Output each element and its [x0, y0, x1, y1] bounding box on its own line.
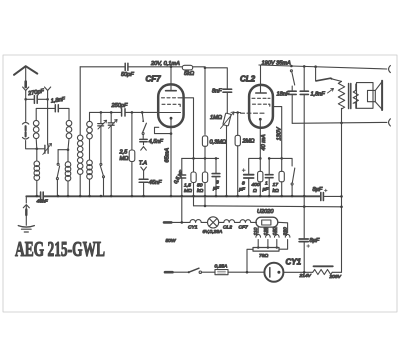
- CF7 cathode: [170, 117, 173, 120]
- connector bottom right: [389, 119, 391, 126]
- node trimmer1: [100, 111, 103, 114]
- wire 1.8nF right lead: [59, 108, 69, 120]
- node speaker switch: [314, 65, 317, 68]
- wire: [251, 221, 257, 223]
- svg-text:kΩ: kΩ: [197, 188, 203, 194]
- coil L1 upper: [33, 120, 39, 126]
- node transformer bottom: [340, 122, 343, 125]
- CF7 grid3 dashes: [162, 104, 180, 106]
- wire: [228, 271, 265, 273]
- svg-text:270pF: 270pF: [27, 88, 45, 97]
- svg-text:8µF: 8µF: [310, 238, 320, 244]
- svg-text:Ω: Ω: [253, 188, 257, 194]
- capacitor 1.8nF: [55, 105, 58, 112]
- node 50k top: [204, 157, 207, 160]
- wire junction1 to tuning cap: [37, 148, 45, 150]
- wire: [219, 221, 224, 223]
- svg-text:CL2: CL2: [240, 75, 256, 84]
- node right of 270pF: [46, 98, 49, 101]
- transformer T1 secondary: [353, 90, 358, 103]
- mains plug: [165, 271, 173, 274]
- lamp 6V 0.23A: [208, 217, 219, 228]
- antenna plug pin: [24, 82, 27, 88]
- capacitor 18nF: [291, 86, 293, 91]
- switch S6 output tap: [315, 67, 317, 81]
- capacitor 250pF: [122, 109, 125, 116]
- TA jack lower: [141, 167, 147, 179]
- wire top HT rail left: [80, 67, 205, 135]
- svg-text:20V, 0,1mA: 20V, 0,1mA: [150, 61, 180, 67]
- svg-text:45nF: 45nF: [37, 199, 49, 205]
- svg-text:130V: 130V: [276, 126, 282, 140]
- wire HT feed vertical: [341, 108, 343, 272]
- wire pot wiper to CL2 grid: [235, 112, 241, 114]
- svg-text:18nF: 18nF: [277, 91, 290, 97]
- CL2 grid3 dashes: [253, 104, 270, 106]
- wire CF7 screen exit: [181, 98, 193, 159]
- wire CY1 to dropper: [283, 271, 312, 273]
- resistor 2.5MOhm: [131, 112, 133, 150]
- node HT right bus: [340, 195, 343, 198]
- wire jack2 down to tuning cap: [47, 91, 49, 146]
- node 8nF feed: [204, 67, 207, 70]
- capacitor 50pF: [125, 63, 128, 70]
- CL2 control grid dashes: [241, 112, 265, 114]
- node 1.8nF2 branch: [303, 65, 306, 68]
- wire: [173, 271, 189, 273]
- wire CL2 screen exit: [273, 107, 282, 159]
- ballast tube U2020: [256, 217, 278, 227]
- capacitor 1.8nF2: [303, 66, 305, 90]
- wire CF7 cathode down: [170, 118, 172, 196]
- wire grid rail: [90, 111, 159, 113]
- svg-text:CL2: CL2: [223, 224, 232, 230]
- transformer T1 core: [349, 84, 351, 109]
- wire HT node to 8nF: [205, 68, 227, 89]
- potentiometer 1MOhm: [226, 92, 228, 113]
- ground plug pin: [25, 210, 27, 216]
- tube CL2: [249, 85, 273, 128]
- coil L4 lower: [89, 139, 91, 160]
- second jack socket: [45, 87, 51, 91]
- fuse 0.25A: [215, 270, 228, 275]
- wire 18nF to bottom rail: [291, 94, 293, 123]
- ground symbol: [18, 226, 34, 228]
- wire antenna lead: [25, 67, 27, 81]
- wire CL2 anode riser: [260, 65, 262, 93]
- CF7 control grid line: [159, 112, 181, 114]
- svg-text:1,5: 1,5: [184, 183, 191, 189]
- capacitor 8uF2 electrolytic: [299, 239, 308, 242]
- ballast taps: [257, 227, 259, 233]
- CF7 grid2 dashes: [162, 97, 182, 99]
- wire: [235, 221, 240, 223]
- svg-text:110: 110: [253, 227, 259, 235]
- capacitor 270pF: [34, 96, 37, 104]
- svg-text:50W: 50W: [166, 238, 176, 244]
- resistor 50kOhm: [204, 158, 206, 172]
- heater CY1 bumps: [190, 220, 201, 223]
- wire heater: [171, 221, 190, 223]
- capacitor 8uF electrolytic: [244, 175, 254, 178]
- wire cathode junction to 8uF: [249, 158, 261, 174]
- bus junction dots: [36, 195, 306, 198]
- svg-text:CY1: CY1: [188, 224, 198, 230]
- wire bottom rail (output return): [292, 121, 387, 124]
- antenna jack socket: [23, 87, 29, 91]
- resistor 400Ohm: [259, 158, 261, 171]
- svg-text:208V: 208V: [329, 274, 342, 280]
- trimmer C-t2: [110, 112, 112, 122]
- wire: [202, 271, 216, 273]
- resistor 2MOhm: [237, 113, 239, 136]
- svg-text:1MΩ: 1MΩ: [210, 115, 223, 121]
- heater line plug: [164, 221, 171, 224]
- tube CF7: [158, 84, 183, 127]
- wire 1.8nF left lead: [36, 108, 55, 120]
- CL2 grid2 dashes: [252, 97, 270, 99]
- node TA branch: [141, 111, 144, 114]
- capacitor 4.5nF: [140, 139, 147, 141]
- heater CF7 bumps: [240, 220, 251, 223]
- wire oscillator feed from top rail: [79, 67, 81, 135]
- switch S2: [100, 163, 102, 165]
- resistor 5kOhm: [182, 65, 192, 70]
- node 18nF branch: [290, 65, 293, 68]
- svg-text:µF: µF: [239, 187, 246, 193]
- rectifier tube CY1: [264, 263, 283, 282]
- svg-text:50pF: 50pF: [121, 72, 134, 78]
- switch S4 tone: [282, 158, 292, 166]
- wire jack to node: [25, 91, 27, 100]
- wire left column down: [26, 99, 37, 149]
- capacitor 1uF: [268, 158, 270, 174]
- wire CF7 suppressor strap to cathode: [155, 127, 172, 133]
- svg-text:T.A: T.A: [139, 161, 147, 167]
- svg-text:6V,0,23A: 6V,0,23A: [203, 229, 223, 235]
- ground bus: [26, 195, 320, 197]
- svg-text:8nF: 8nF: [212, 89, 222, 95]
- svg-text:U2020: U2020: [257, 209, 274, 215]
- svg-text:CY1: CY1: [286, 258, 302, 267]
- capacitor 8uF HT smoothing: [321, 193, 324, 201]
- svg-text:µF: µF: [213, 186, 220, 192]
- node tuner junction 1: [36, 148, 39, 151]
- switch S3 TA: [142, 112, 143, 120]
- wire screen node rail: [269, 157, 282, 159]
- svg-text:2MΩ: 2MΩ: [242, 139, 256, 145]
- svg-text:5kΩ: 5kΩ: [184, 71, 195, 77]
- resistor 1.5MOhm: [193, 158, 195, 172]
- ground jack: [23, 205, 29, 208]
- CL2 anode bar: [256, 92, 266, 94]
- svg-text:214V: 214V: [299, 273, 312, 279]
- svg-text:AEG 215-GWL: AEG 215-GWL: [15, 237, 105, 261]
- antenna: [14, 66, 37, 75]
- node col2 junction: [67, 148, 70, 151]
- node trimmer2: [110, 111, 113, 114]
- svg-text:MΩ: MΩ: [120, 156, 130, 162]
- switch S5: [290, 70, 292, 72]
- svg-text:1: 1: [265, 181, 268, 187]
- svg-text:CF7: CF7: [146, 75, 162, 84]
- svg-text:CF7: CF7: [239, 224, 249, 230]
- wire: [201, 221, 207, 223]
- svg-text:MΩ: MΩ: [184, 188, 192, 194]
- wire L1 to junction: [35, 139, 38, 149]
- svg-text:150: 150: [272, 227, 278, 235]
- heater CL2 bumps: [224, 220, 235, 223]
- wire C270 to jack2: [38, 98, 48, 100]
- coil L2 lower: [67, 150, 69, 162]
- svg-text:40 mA: 40 mA: [261, 134, 267, 150]
- wire node to C 270pF: [26, 98, 34, 100]
- wire HT rail right: [259, 65, 387, 69]
- coil L2 upper: [66, 120, 72, 126]
- node 1.5M top: [192, 157, 195, 160]
- svg-text:45nF: 45nF: [149, 180, 162, 186]
- transformer T1 primary: [332, 79, 342, 82]
- svg-text:400: 400: [252, 182, 260, 188]
- capacitor 3uF: [215, 158, 217, 173]
- svg-text:220: 220: [283, 227, 289, 236]
- wire CF7 anode riser: [170, 67, 172, 91]
- coil L4 upper: [87, 121, 93, 127]
- connector top right: [389, 66, 391, 73]
- resistor 0.3MOhm: [202, 136, 207, 147]
- svg-text:1,8nF: 1,8nF: [311, 91, 326, 97]
- resistor 17kOhm: [281, 158, 283, 171]
- speaker LS: [357, 83, 374, 109]
- trimmer C-t1: [100, 112, 102, 123]
- svg-text:8: 8: [242, 181, 245, 187]
- wire switch top to col2: [58, 149, 68, 151]
- svg-text:8µF: 8µF: [313, 187, 323, 193]
- capacitor 45nF series ground: [41, 192, 44, 200]
- svg-text:µF: µF: [263, 187, 270, 193]
- TA jack upper: [141, 142, 147, 151]
- wire CL2 cathode down: [259, 119, 261, 158]
- svg-text:0,3MΩ: 0,3MΩ: [210, 140, 227, 146]
- wire screen junction rail: [182, 157, 219, 159]
- wire selector bar feed: [247, 249, 253, 272]
- capacitor 45nF TA: [139, 179, 148, 182]
- wire dropper to HT vertical: [332, 271, 341, 273]
- coil L3 tall: [77, 135, 83, 141]
- node CL2 cathode junction: [259, 157, 262, 160]
- svg-text:1,8nF: 1,8nF: [50, 97, 66, 105]
- svg-text:250pF: 250pF: [111, 103, 128, 109]
- svg-text:3: 3: [216, 180, 219, 186]
- svg-text:79Ω: 79Ω: [259, 253, 268, 259]
- svg-text:0,25A: 0,25A: [215, 264, 228, 270]
- coil L1 lower: [36, 149, 38, 161]
- node R 2.5M top: [131, 111, 134, 114]
- svg-text:17: 17: [273, 182, 279, 188]
- CY1 filament bar: [269, 268, 271, 277]
- switch S1 band: [57, 163, 59, 165]
- node antenna input: [24, 98, 27, 101]
- svg-text:65mA: 65mA: [164, 148, 170, 163]
- svg-text:125: 125: [263, 227, 269, 235]
- variable capacitor C-tune1: [45, 145, 48, 153]
- node CF7 anode: [170, 66, 173, 69]
- switch S7 mains: [190, 268, 199, 272]
- svg-text:2,5: 2,5: [119, 150, 129, 156]
- wire col4 from grid rail: [89, 112, 91, 121]
- wire ground drop: [25, 196, 27, 203]
- svg-text:190V 35mA: 190V 35mA: [262, 60, 291, 66]
- CY1 anode dot: [277, 271, 280, 274]
- capacitor 0.5uF: [181, 158, 183, 174]
- svg-text:4,5nF: 4,5nF: [149, 139, 164, 145]
- back-bias line: [194, 206, 342, 207]
- CL2 cathode: [259, 118, 262, 121]
- resistor dropper zigzag: [313, 270, 333, 275]
- adjustable core coupler: [22, 122, 28, 124]
- wire 1.8nF2 down: [303, 94, 305, 196]
- svg-text:50: 50: [197, 183, 203, 189]
- capacitor 8nF: [223, 89, 232, 92]
- CF7 anode bar: [166, 90, 177, 92]
- voltage selector bar: [253, 248, 279, 252]
- svg-text:kΩ: kΩ: [273, 188, 279, 194]
- tap arrow: [328, 89, 334, 94]
